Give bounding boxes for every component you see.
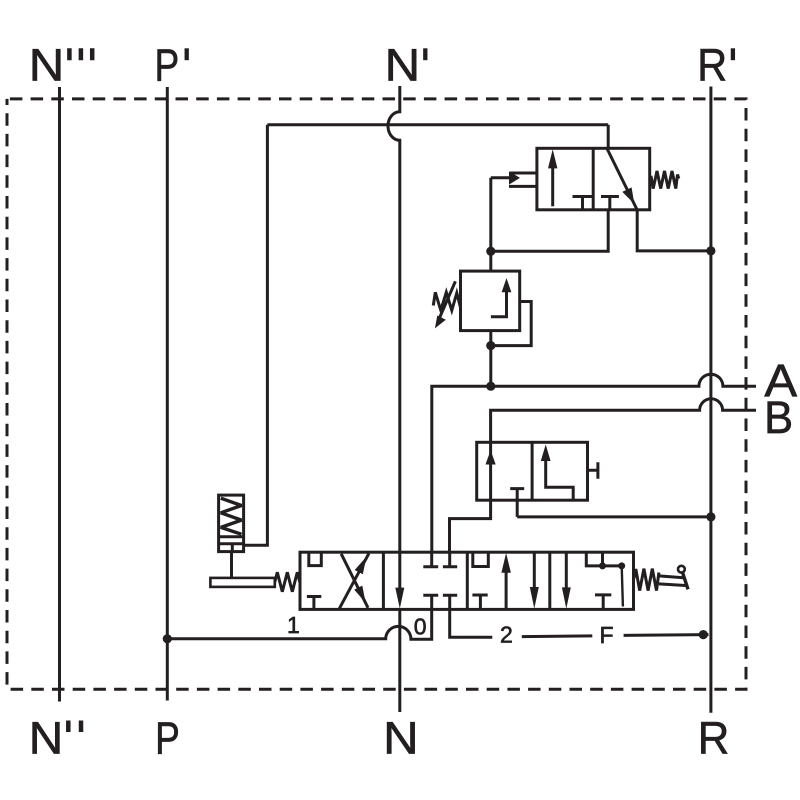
- adjustable spring zigzag: [433, 292, 460, 310]
- valve V1 flow arrow up in left cell: [551, 167, 554, 206]
- svg-text:2: 2: [500, 622, 513, 648]
- svg-text:F: F: [600, 622, 614, 648]
- position 2 down flow arrow: [533, 553, 536, 589]
- node junction R' drain: [706, 512, 715, 521]
- valve V4 position F cell: [562, 552, 625, 609]
- svg-text:N: N: [29, 712, 64, 763]
- position 0 blocked top port T on A line: [423, 552, 438, 567]
- position F blocked port T: [595, 595, 611, 610]
- svg-text:1: 1: [287, 612, 300, 638]
- double prime marks of N'': [68, 721, 81, 733]
- valve 3/2 pilot valve V1: [509, 148, 679, 210]
- wire pilot/relief vertical: [489, 178, 492, 271]
- right cell arrow: [546, 460, 574, 501]
- wire 3/2 pilot feed: [491, 176, 509, 179]
- node junction R' top: [706, 246, 715, 255]
- position 0 blocked bottom port T left: [423, 595, 438, 609]
- lever left actuator bar: [210, 578, 274, 587]
- T port right cell: [601, 197, 619, 210]
- border dashed frame: [7, 99, 746, 689]
- T drain port: [510, 489, 524, 517]
- wire B line: [491, 399, 756, 443]
- wire 3/2 bottom left port line: [491, 210, 608, 251]
- position F poppet line: [622, 566, 623, 607]
- spring zigzag inside cylinder: [221, 498, 242, 534]
- relief valve body box: [461, 271, 520, 331]
- svg-text:N: N: [385, 40, 421, 91]
- position 1 crossed flow arrow down-right: [341, 554, 368, 608]
- check valve divider: [531, 442, 534, 500]
- prime mark of R': [731, 48, 735, 60]
- wire N vertical bottom: [398, 609, 401, 712]
- node A junction: [486, 382, 495, 391]
- svg-text:B: B: [764, 392, 793, 443]
- valve V4 position dividers: [383, 552, 549, 609]
- pressure relief valve V2: [433, 271, 531, 386]
- main directional valve V4 body box: [300, 552, 634, 609]
- svg-text:R: R: [698, 712, 730, 763]
- wire P leader line with jump over N: [167, 609, 431, 639]
- pilot spring cylinder box: [219, 495, 244, 551]
- wire A line: [432, 374, 756, 552]
- wire valve V4 bottom port to leader line: [450, 609, 493, 637]
- pedal bar top edge: [659, 576, 684, 578]
- wire pilot left vertical to spring box: [244, 125, 268, 545]
- position 2 port pocket square: [473, 552, 489, 566]
- bypass line: [491, 302, 531, 346]
- valve V4 position 0 cell: [395, 552, 457, 609]
- node gallery junction right: [618, 562, 625, 569]
- spring right of main valve: [634, 569, 659, 591]
- pedal leg stroke: [683, 572, 689, 589]
- pedal pivot circle: [678, 566, 685, 573]
- valve V4 position 1 cell: [307, 552, 369, 609]
- position 2 up flow arrow: [505, 571, 508, 609]
- adjustable arrow diagonal: [439, 281, 455, 319]
- triple prime marks of N''': [69, 48, 92, 60]
- prime mark of N': [423, 48, 427, 60]
- wire leader segment between 2 and F: [522, 634, 593, 638]
- check valve body box: [477, 442, 588, 500]
- node P junction: [163, 634, 172, 643]
- valve V1 body box: [537, 148, 650, 210]
- node junction 3/2 left return: [486, 247, 495, 256]
- wire N''' vertical: [58, 87, 61, 702]
- position F top gallery bar: [586, 552, 621, 566]
- node bypass junction: [486, 341, 495, 350]
- spring left of main valve: [275, 572, 300, 592]
- position 2 blocked port T: [472, 595, 487, 609]
- tab right side: [588, 462, 598, 479]
- svg-text:P: P: [155, 40, 180, 91]
- lever stem: [230, 552, 233, 578]
- wire below relief: [489, 331, 492, 387]
- position F gallery stem: [601, 552, 604, 566]
- position 0 down flow arrow on N line: [398, 552, 401, 589]
- position 0 blocked bottom port T right: [443, 595, 457, 609]
- wire pilot line horizontal y=124.8: [267, 123, 608, 126]
- pilot pressure actuator of valve V1: [509, 171, 520, 184]
- cylinder rod stem: [231, 544, 234, 552]
- check valve block V3: [450, 442, 716, 552]
- position 1 blocked port T: [307, 597, 321, 610]
- wire 3/2 bottom right to R': [637, 210, 711, 251]
- position 1 crossed flow arrow up-right: [339, 553, 369, 608]
- wire N vertical top with jump over pilot line: [388, 86, 400, 552]
- cylinder piston lines: [219, 537, 244, 544]
- wire R' vertical: [709, 87, 712, 713]
- node label line end: [699, 630, 708, 639]
- valve V1 position divider: [592, 148, 595, 210]
- position 1 port pocket square: [309, 552, 322, 565]
- position 0 blocked top port T on B line: [443, 552, 457, 567]
- wire P vertical: [166, 87, 169, 701]
- check valve left cell through line with up arrow: [450, 442, 491, 552]
- svg-text:N: N: [383, 712, 419, 763]
- wire pilot drop to 3/2 valve: [607, 125, 610, 149]
- prime mark of P': [185, 48, 189, 60]
- valve V4 position 2 cell: [472, 552, 538, 609]
- svg-text:R: R: [697, 40, 727, 91]
- T port left cell: [573, 197, 593, 210]
- svg-text:P: P: [155, 712, 180, 763]
- svg-text:0: 0: [414, 613, 427, 639]
- node gallery junction left: [599, 562, 606, 569]
- lever pedal actuator right of valve V4: [659, 566, 688, 590]
- pedal bar bottom edge: [659, 584, 686, 586]
- valve V1 diagonal flow arrow in right cell: [607, 149, 637, 210]
- svg-text:N: N: [29, 40, 65, 91]
- drain to R': [517, 515, 711, 518]
- relief valve internal flow arrow: [491, 291, 507, 317]
- position F down flow arrow: [565, 553, 568, 589]
- wire leader segment F to R': [624, 633, 709, 637]
- spring return of valve V1: [650, 171, 679, 189]
